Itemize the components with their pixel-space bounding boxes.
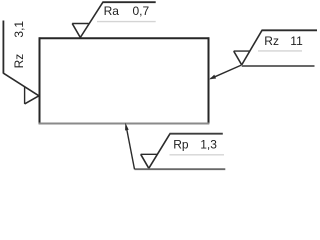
roughness symbol Rp 1,3: long leg [149,134,170,169]
roughness symbol Rp 1,3: shelf line [170,133,223,135]
part outline rectangle: right edge [208,37,210,123]
svg-text:Rz: Rz [12,54,26,69]
roughness symbol Rz 3,1: closing bar [24,87,26,104]
roughness symbol Rz 11: baseline under symbol [242,65,315,67]
svg-text:Rz: Rz [264,34,279,48]
roughness symbol Rz 11: long leg [242,30,262,65]
roughness symbol Rp 1,3: closing bar [141,153,157,155]
roughness symbol Rz 11 (right surface): short leg [234,51,242,65]
part outline rectangle: bottom edge (lighter) [39,123,210,125]
leader line to bottom surface [126,127,134,169]
roughness symbol Rz 3,1: long leg [3,73,39,96]
roughness symbol Rz 11: thin underline [258,50,302,52]
part outline rectangle: top edge [39,37,210,39]
leader line to right surface [211,65,242,79]
part outline rectangle: left edge [39,37,41,124]
svg-text:11: 11 [290,34,303,48]
roughness symbol Ra 0,7: thin underline [97,21,156,23]
roughness symbol Rz 3,1 (left surface): vertical shelf line [2,21,4,74]
roughness symbol Rz 11: shelf line [262,29,318,31]
roughness symbol Rz 3,1: short leg [25,96,39,104]
svg-text:3,1: 3,1 [12,21,26,38]
roughness symbol Rz 11: closing bar [234,50,250,52]
roughness symbol Ra 0,7: long leg [80,2,103,37]
roughness symbol Ra 0,7: shelf line [102,1,155,3]
roughness symbol Ra 0,7: closing bar [72,23,88,25]
roughness symbol Rp 1,3: thin underline [170,154,225,156]
svg-text:1,3: 1,3 [200,138,217,152]
roughness symbol Rp 1,3 (bottom surface): short leg [141,154,149,168]
svg-text:0,7: 0,7 [133,4,150,18]
svg-text:Rp: Rp [173,138,189,152]
roughness symbol Rp 1,3: baseline under symbol [135,168,226,170]
arrowhead on bottom surface [125,123,129,131]
svg-text:Ra: Ra [104,4,120,18]
roughness symbol Ra 0,7 (top surface): short leg [72,24,80,38]
arrowhead on right surface [209,75,216,80]
